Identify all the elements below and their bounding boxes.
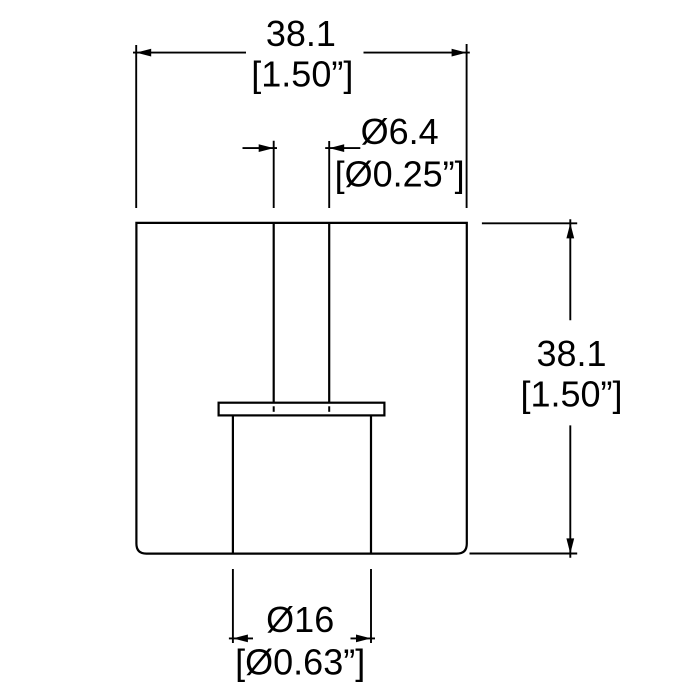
arrowhead pin dim left (points right) [259, 144, 274, 152]
right dimension extension line top [482, 222, 577, 224]
arrowhead top dim left [136, 49, 151, 57]
cylinder left edge [232, 415, 234, 553]
bottom dimension line left stub [229, 637, 253, 639]
top dimension line left segment [133, 52, 246, 54]
pin extension line right [328, 141, 330, 208]
arrowhead pin dim right (points left) [329, 144, 344, 152]
bottom dimension extension line left [232, 569, 234, 643]
arrowhead top dim right [452, 49, 467, 57]
pin extension line left [273, 141, 275, 208]
arrowhead right dim top (points up) [566, 223, 574, 238]
flange rectangle [219, 403, 385, 416]
svg-text:[1.50”]: [1.50”] [520, 374, 622, 415]
bottom dimension extension line right [370, 569, 372, 643]
pin diameter arrow line left [243, 147, 278, 149]
right dimension line upper segment [569, 219, 571, 320]
right dimension extension line bottom [470, 553, 578, 555]
top dimension line right segment [364, 52, 470, 54]
svg-text:Ø16: Ø16 [266, 599, 334, 640]
arrowhead right dim bottom (points down) [566, 538, 574, 553]
shaft pin left edge [273, 223, 275, 403]
cylinder right edge [370, 415, 372, 553]
pin diameter arrow leader right [325, 147, 360, 149]
svg-text:38.1: 38.1 [536, 333, 606, 374]
top dimension extension line right [466, 44, 468, 208]
part body outline (38.1mm square, rounded bottom corners) [136, 223, 466, 554]
svg-text:[Ø0.25”]: [Ø0.25”] [335, 154, 465, 195]
svg-text:[Ø0.63”]: [Ø0.63”] [235, 642, 365, 683]
svg-text:38.1: 38.1 [266, 13, 336, 54]
svg-text:Ø6.4: Ø6.4 [361, 111, 439, 152]
arrowhead bottom dim left (points left) [233, 635, 248, 643]
svg-text:[1.50”]: [1.50”] [251, 54, 353, 95]
right dimension line lower segment [569, 425, 571, 557]
arrowhead bottom dim right (points right) [356, 635, 371, 643]
top dimension extension line left [135, 45, 137, 208]
bottom dimension line right stub [351, 637, 376, 639]
shaft pin right edge [328, 223, 330, 403]
hidden pin dash left (inside flange) [273, 406, 275, 412]
hidden pin dash right (inside flange) [328, 406, 330, 412]
